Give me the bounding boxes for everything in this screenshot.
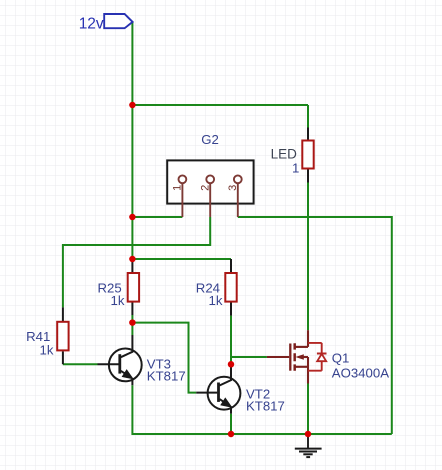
wire: R24 bottom vertical to VT2 collector junction <box>230 316 232 365</box>
resistor R25 leads <box>131 259 133 315</box>
wire: G2 pin 3 to right rail, down right side <box>238 217 392 434</box>
wire: segment below R25 to VT3 collector <box>131 315 133 335</box>
svg-text:KT817: KT817 <box>147 368 186 383</box>
resistor R24 body <box>225 273 236 302</box>
wire: R41 bottom to VT3 base <box>63 363 98 365</box>
junction node at y=217 branch <box>129 214 136 221</box>
resistor R41 leads <box>62 307 64 364</box>
G2 pin 1 <box>172 175 187 217</box>
connector G2 body <box>167 160 253 203</box>
Q1 drain lead <box>307 330 309 347</box>
MOSFET Q1 <box>267 330 327 383</box>
resistor LED1 body <box>302 141 313 169</box>
svg-text:12v: 12v <box>79 15 104 32</box>
junction node ground / bottom rail <box>305 431 312 438</box>
transistor VT3 <box>98 335 142 385</box>
resistor R41 body <box>57 322 68 351</box>
Q1 gate bar <box>289 344 291 371</box>
junction node at 12v rail / LED branch <box>129 102 136 109</box>
net label 12v flag <box>104 14 132 28</box>
Q1 source vertical <box>307 357 309 384</box>
svg-text:1k: 1k <box>40 343 54 358</box>
wire: main vertical from 12v flag down to R25 <box>131 22 133 260</box>
Q1 body line and arrow <box>303 356 308 358</box>
svg-text:2: 2 <box>199 185 211 191</box>
G2 pin 2 <box>199 175 214 217</box>
svg-text:3: 3 <box>227 185 239 191</box>
Q1 source-channel horizontal <box>295 366 308 368</box>
wire: horizontal at y=259 to R24 <box>132 258 231 260</box>
Q1 channel segments <box>293 343 296 370</box>
svg-text:AO3400A: AO3400A <box>332 365 389 380</box>
wire: junction to G2 pin 1 <box>132 216 182 218</box>
resistor R24 leads <box>230 259 232 316</box>
wire: VT3 emitter down, bottom rail <box>132 385 391 434</box>
wire: LED bottom down to Q1 drain <box>307 183 309 331</box>
wire: Q1 source to bottom rail <box>307 384 309 435</box>
wire: VT2 emitter to bottom rail <box>230 414 232 434</box>
wire: VT3 collector junction to VT2 base <box>132 323 196 393</box>
svg-text:Q1: Q1 <box>332 351 350 366</box>
svg-text:1k: 1k <box>209 293 223 308</box>
junction node at VT2 collector <box>228 361 235 368</box>
Q1 body diode <box>308 343 327 371</box>
ground <box>295 436 322 457</box>
wire: LED top vertical <box>307 105 309 128</box>
svg-text:1k: 1k <box>111 293 125 308</box>
resistor R25 body <box>128 273 139 302</box>
svg-text:1: 1 <box>172 185 184 191</box>
G2 pin 3 <box>227 175 242 217</box>
Q1 gate lead <box>267 356 289 358</box>
junction node below R25 <box>129 319 136 326</box>
wire: top horizontal to LED <box>132 104 308 106</box>
resistor LED1 leads <box>307 128 309 183</box>
junction node at y=259 branch <box>129 256 136 263</box>
wire: branch to Q1 gate <box>231 356 267 358</box>
svg-text:G2: G2 <box>201 132 219 147</box>
wire: G2 pin2 to R41 top <box>63 217 210 307</box>
svg-text:LED: LED <box>271 146 298 161</box>
svg-text:KT817: KT817 <box>246 399 285 414</box>
svg-text:1: 1 <box>292 161 299 176</box>
junction node VT2 emitter / bottom rail <box>228 431 235 438</box>
Q1 drain-channel horizontal <box>295 346 308 348</box>
transistor VT2 <box>196 364 240 413</box>
